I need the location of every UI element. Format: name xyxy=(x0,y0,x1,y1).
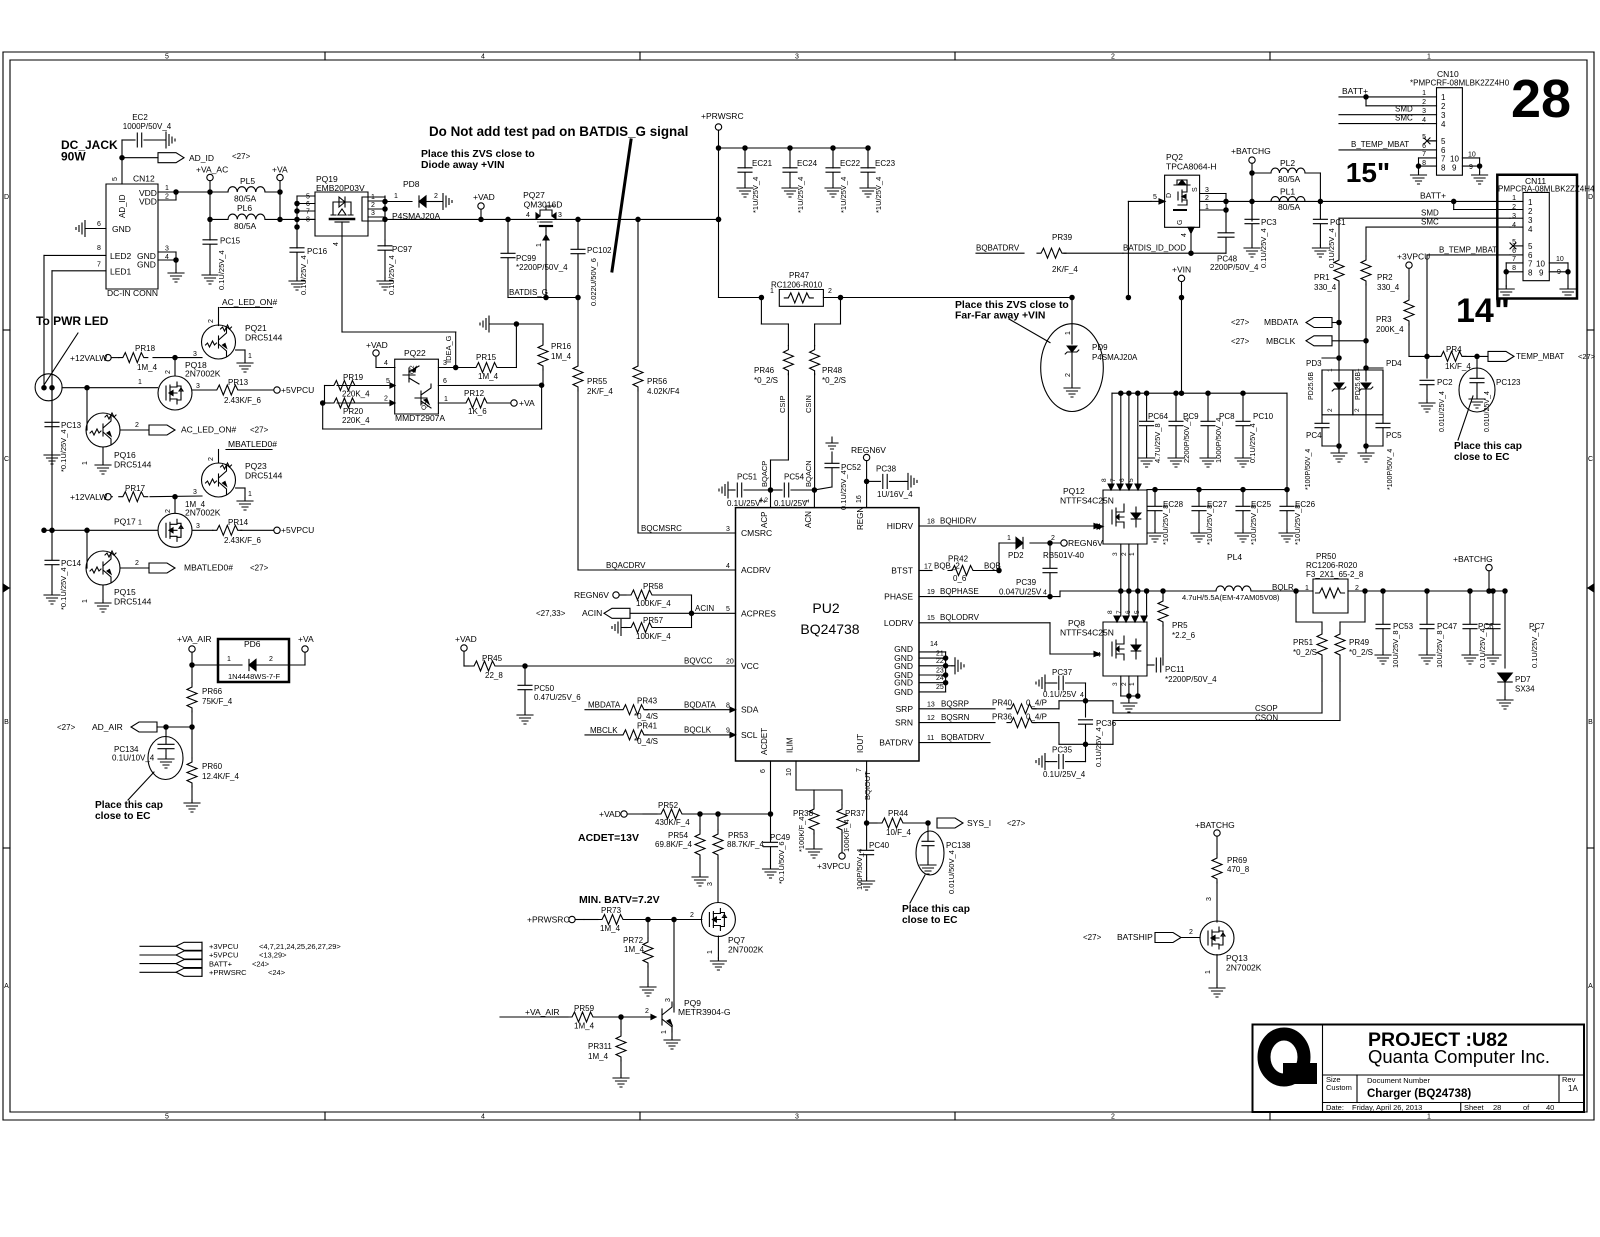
svg-text:C: C xyxy=(1588,456,1593,463)
svg-text:BQLR: BQLR xyxy=(1272,583,1294,592)
resistor PR46 xyxy=(754,346,793,490)
wire EC21 bus xyxy=(719,146,871,150)
capacitor PC11 xyxy=(1147,655,1217,684)
svg-text:MBATLED0#: MBATLED0# xyxy=(184,563,233,573)
capacitor PC47 xyxy=(1419,591,1458,668)
svg-text:1: 1 xyxy=(1441,93,1446,102)
note DC_JACK 90W xyxy=(61,138,118,164)
svg-text:PR37: PR37 xyxy=(845,809,866,818)
border arrow left xyxy=(3,584,9,592)
capacitor PC1 xyxy=(1312,201,1346,268)
svg-text:PC11: PC11 xyxy=(1165,665,1185,674)
svg-text:DRC5144: DRC5144 xyxy=(114,597,152,607)
transistor PQ12 xyxy=(1060,478,1147,544)
svg-text:PL1: PL1 xyxy=(1280,187,1295,197)
svg-text:3: 3 xyxy=(665,998,672,1002)
svg-text:VCC: VCC xyxy=(741,661,759,671)
svg-text:PD7: PD7 xyxy=(1515,675,1531,684)
svg-text:<24>: <24> xyxy=(268,968,286,977)
svg-text:PQ23: PQ23 xyxy=(245,461,267,471)
svg-text:1K/F_4: 1K/F_4 xyxy=(1445,362,1471,371)
svg-text:ACDRV: ACDRV xyxy=(741,565,771,575)
svg-text:To PWR LED: To PWR LED xyxy=(36,314,109,328)
svg-text:8: 8 xyxy=(726,703,730,710)
wire main to PR47 xyxy=(719,295,764,299)
transistor PQ13 xyxy=(1200,921,1262,974)
svg-text:REGN6V: REGN6V xyxy=(1068,538,1103,548)
node +12VALW 2 xyxy=(70,492,112,502)
svg-text:PU2: PU2 xyxy=(812,600,839,616)
svg-text:3: 3 xyxy=(1441,111,1446,120)
svg-text:PR66: PR66 xyxy=(202,687,223,696)
svg-text:5: 5 xyxy=(165,1114,169,1121)
svg-text:*0_2/S: *0_2/S xyxy=(822,376,846,385)
wire EC28 bus xyxy=(1147,487,1289,491)
svg-text:CN10: CN10 xyxy=(1437,69,1459,79)
wire MBDATA SDA xyxy=(585,701,621,710)
svg-text:5: 5 xyxy=(1528,242,1533,251)
resistor PR51 xyxy=(1293,591,1327,681)
svg-text:3: 3 xyxy=(371,210,375,217)
svg-text:0.1U/25V_4: 0.1U/25V_4 xyxy=(217,250,226,290)
svg-text:0.1U/25V_4: 0.1U/25V_4 xyxy=(299,255,308,295)
capacitor PC51 xyxy=(719,473,771,509)
svg-text:PC13: PC13 xyxy=(61,421,82,430)
svg-text:18: 18 xyxy=(927,519,935,526)
svg-text:SMC: SMC xyxy=(1395,114,1413,123)
svg-text:80/5A: 80/5A xyxy=(1278,202,1301,212)
svg-text:4: 4 xyxy=(1441,120,1446,129)
svg-text:BQDATA: BQDATA xyxy=(684,701,716,710)
svg-text:TPCA8064-H: TPCA8064-H xyxy=(1166,162,1217,172)
svg-text:EC22: EC22 xyxy=(840,159,861,168)
note Place cap EC left xyxy=(95,800,163,822)
svg-text:BATT+: BATT+ xyxy=(209,959,233,968)
note To PWR LED xyxy=(36,314,109,328)
svg-text:1: 1 xyxy=(394,193,398,200)
svg-text:<24>: <24> xyxy=(252,959,270,968)
sheet number 28 xyxy=(1511,69,1571,129)
net arrow ACIN xyxy=(536,604,736,618)
node +3VPCU right xyxy=(1397,252,1430,297)
svg-text:+5VPCU: +5VPCU xyxy=(281,525,314,535)
svg-text:8: 8 xyxy=(306,217,310,224)
capacitor PC52 xyxy=(804,437,862,510)
svg-text:*0.1U/25V_4: *0.1U/25V_4 xyxy=(59,429,68,472)
inductor PL4 xyxy=(1182,552,1298,602)
svg-text:PR44: PR44 xyxy=(888,809,909,818)
node +BATCHG mid xyxy=(1453,554,1493,593)
note callout line right xyxy=(1458,396,1473,440)
ground PR15 xyxy=(480,316,543,332)
PU2 GND pins xyxy=(919,641,948,692)
svg-text:3: 3 xyxy=(1528,216,1533,225)
note callout line mid xyxy=(910,875,925,903)
svg-text:PC40: PC40 xyxy=(869,841,890,850)
svg-text:PR3: PR3 xyxy=(1376,315,1392,324)
svg-text:80/5A: 80/5A xyxy=(234,194,257,204)
svg-text:PC138: PC138 xyxy=(946,841,971,850)
svg-text:2: 2 xyxy=(1111,54,1115,61)
svg-text:3: 3 xyxy=(795,54,799,61)
svg-text:close to EC: close to EC xyxy=(902,915,958,926)
svg-text:BQACP: BQACP xyxy=(760,461,769,487)
svg-text:PQ2: PQ2 xyxy=(1166,152,1183,162)
node +VAD gate xyxy=(366,340,395,368)
svg-text:MBDATA: MBDATA xyxy=(1264,317,1298,327)
svg-text:ACIN: ACIN xyxy=(582,608,602,618)
transistor PQ23 xyxy=(202,457,283,497)
svg-text:Quanta Computer Inc.: Quanta Computer Inc. xyxy=(1368,1046,1550,1067)
svg-text:1: 1 xyxy=(707,950,714,954)
transistor PQ17 xyxy=(114,497,192,548)
wire PQ9 base xyxy=(619,1008,656,1020)
svg-text:BQIOUT: BQIOUT xyxy=(863,771,872,800)
svg-text:1M_4: 1M_4 xyxy=(574,1022,595,1031)
resistor PR1 xyxy=(1314,218,1344,322)
svg-text:PD2: PD2 xyxy=(1008,551,1024,560)
svg-text:4: 4 xyxy=(1528,225,1533,234)
svg-text:2: 2 xyxy=(165,370,172,374)
svg-text:*2200P/50V_4: *2200P/50V_4 xyxy=(516,263,568,272)
svg-text:4: 4 xyxy=(1181,233,1188,237)
svg-text:MIN. BATV=7.2V: MIN. BATV=7.2V xyxy=(579,894,660,906)
svg-text:EC23: EC23 xyxy=(875,159,896,168)
svg-text:2.43K/F_6: 2.43K/F_6 xyxy=(224,396,261,405)
node +VA left xyxy=(272,165,288,222)
svg-text:<27>: <27> xyxy=(1007,819,1026,828)
svg-text:3: 3 xyxy=(726,526,730,533)
ground CN12 pin6 xyxy=(76,221,88,237)
wire +VA_AIR PR59 xyxy=(500,1007,560,1017)
svg-text:close to EC: close to EC xyxy=(95,811,151,822)
wire PR19/20 tie xyxy=(323,383,544,429)
svg-text:7: 7 xyxy=(856,768,863,772)
svg-text:2: 2 xyxy=(269,656,273,663)
wire B_TEMP vert xyxy=(1426,255,1428,378)
svg-text:+VA_AC: +VA_AC xyxy=(196,165,228,175)
svg-text:BQACDRV: BQACDRV xyxy=(606,561,646,570)
svg-text:*0_2/S: *0_2/S xyxy=(1293,648,1317,657)
svg-text:SMD: SMD xyxy=(1395,105,1413,114)
node +5VPCU 1 xyxy=(241,385,315,395)
svg-text:4: 4 xyxy=(384,360,388,367)
svg-text:1: 1 xyxy=(1422,90,1426,97)
capacitor PC37 xyxy=(1036,668,1086,701)
capacitor PC6 xyxy=(1462,591,1494,668)
pin 5 CN12 xyxy=(112,177,119,181)
note MIN. BATV=7.2V xyxy=(579,894,660,906)
resistor PR41 xyxy=(619,722,736,747)
PQ8 bottom pins xyxy=(1112,676,1140,698)
svg-text:ACPRES: ACPRES xyxy=(741,608,776,618)
wire BQCLK label xyxy=(684,726,730,735)
svg-text:2: 2 xyxy=(165,509,172,513)
capacitor PC15 xyxy=(202,219,241,290)
svg-text:<27>: <27> xyxy=(1083,933,1102,942)
wire PWR LED row2 xyxy=(42,528,158,532)
svg-text:1: 1 xyxy=(248,491,252,498)
node +VAD acdet xyxy=(599,809,643,819)
capacitor EC28 xyxy=(1147,487,1184,545)
svg-text:CSIP: CSIP xyxy=(778,395,787,413)
svg-text:0.1U/25V_4: 0.1U/25V_4 xyxy=(1043,770,1086,779)
svg-text:PR49: PR49 xyxy=(1349,638,1370,647)
svg-text:PC102: PC102 xyxy=(587,246,612,255)
node +PRWSRC top xyxy=(701,111,744,298)
svg-text:*0_4/S: *0_4/S xyxy=(634,712,658,721)
wire BQPHASE xyxy=(919,587,1199,597)
svg-text:BQSRP: BQSRP xyxy=(941,699,969,708)
svg-text:GND: GND xyxy=(137,260,156,270)
wire phase rail xyxy=(1119,589,1216,593)
wire B_TEMP_MBAT CN11 xyxy=(1427,245,1510,255)
net MBATLED0# top xyxy=(219,439,278,463)
svg-text:10: 10 xyxy=(1536,260,1545,269)
svg-text:330_4: 330_4 xyxy=(1314,283,1337,292)
diode PD2 xyxy=(999,535,1084,571)
svg-text:PC123: PC123 xyxy=(1496,378,1521,387)
resistor PR2 xyxy=(1361,227,1400,341)
resistor PR19 xyxy=(325,373,371,399)
svg-text:B_TEMP_MBAT: B_TEMP_MBAT xyxy=(1439,245,1497,254)
svg-text:<27>: <27> xyxy=(1231,337,1250,346)
svg-text:PR20: PR20 xyxy=(343,407,364,416)
svg-text:*1U/25V_4: *1U/25V_4 xyxy=(839,177,848,213)
resistor PR52 xyxy=(643,801,771,827)
capacitor PC64 xyxy=(1139,393,1169,467)
svg-text:+3VPCU: +3VPCU xyxy=(209,942,238,951)
svg-text:6: 6 xyxy=(306,201,310,208)
wire BATT+ to CN11 xyxy=(1320,191,1523,210)
note callout line far xyxy=(1009,319,1050,343)
transistor PQ9 xyxy=(662,998,730,1032)
resistor PR36 xyxy=(992,713,1088,747)
svg-text:0.1U/25V_4: 0.1U/25V_4 xyxy=(839,470,848,510)
svg-text:*1U/25V_4: *1U/25V_4 xyxy=(874,177,883,213)
ground PR311 xyxy=(613,1075,629,1087)
wire PQ2 feed xyxy=(1126,201,1151,299)
svg-text:PR13: PR13 xyxy=(228,378,249,387)
svg-text:9: 9 xyxy=(726,728,730,735)
svg-text:G: G xyxy=(1177,220,1184,225)
svg-text:1: 1 xyxy=(1205,970,1212,974)
svg-text:SYS_I: SYS_I xyxy=(967,818,991,828)
svg-text:D: D xyxy=(1588,194,1593,201)
svg-text:1000P/50V_4: 1000P/50V_4 xyxy=(123,122,172,131)
capacitor PC5 xyxy=(1366,418,1402,490)
wire ILIM pin xyxy=(786,761,814,790)
svg-text:PR56: PR56 xyxy=(647,377,668,386)
node +VA air right xyxy=(298,634,314,665)
svg-text:22: 22 xyxy=(936,658,944,665)
svg-text:4: 4 xyxy=(1080,692,1084,699)
svg-text:RB501V-40: RB501V-40 xyxy=(1043,551,1084,560)
svg-text:PC64: PC64 xyxy=(1148,412,1169,421)
svg-text:AC_LED_ON#: AC_LED_ON# xyxy=(181,425,237,435)
title block frame xyxy=(1253,1025,1585,1113)
PQ22 pin6 row xyxy=(438,378,541,386)
svg-text:1: 1 xyxy=(770,288,774,295)
svg-text:CN12: CN12 xyxy=(133,174,155,184)
CN10 pin stubs xyxy=(1419,90,1437,167)
svg-text:4: 4 xyxy=(526,212,530,219)
svg-text:7: 7 xyxy=(1512,256,1516,263)
svg-text:<27>: <27> xyxy=(57,723,76,732)
svg-text:7: 7 xyxy=(1528,260,1533,269)
svg-text:*0_4/S: *0_4/S xyxy=(634,737,658,746)
diode PD3 xyxy=(1306,358,1353,448)
svg-text:+VA: +VA xyxy=(272,165,288,175)
border arrow right xyxy=(1588,584,1594,592)
svg-text:MBDATA: MBDATA xyxy=(588,701,621,710)
capacitor PC7 xyxy=(1485,589,1545,668)
svg-text:PR59: PR59 xyxy=(574,1004,595,1013)
resistor PR15 xyxy=(456,324,517,381)
svg-text:ACN: ACN xyxy=(804,511,813,528)
resistor PR73 xyxy=(584,906,702,933)
svg-text:1: 1 xyxy=(1427,54,1431,61)
svg-text:<27>: <27> xyxy=(1578,352,1596,361)
svg-text:PQ17: PQ17 xyxy=(114,517,136,527)
wire IDEA_G xyxy=(438,335,458,369)
svg-text:PR51: PR51 xyxy=(1293,638,1314,647)
svg-text:2: 2 xyxy=(135,560,139,567)
ground CN10 pins78 xyxy=(1411,158,1427,184)
svg-text:REGN6V: REGN6V xyxy=(851,445,886,455)
svg-text:QM3016D: QM3016D xyxy=(524,200,563,210)
svg-text:PQ21: PQ21 xyxy=(245,323,267,333)
svg-text:DRC5144: DRC5144 xyxy=(114,460,152,470)
svg-text:Rev: Rev xyxy=(1562,1075,1576,1084)
PU2 top pin REGN xyxy=(856,481,867,507)
capacitor EC22 xyxy=(825,148,861,213)
svg-text:PC47: PC47 xyxy=(1437,622,1458,631)
wire BATDIS_ID_DOD xyxy=(1123,244,1191,254)
svg-text:PC2: PC2 xyxy=(1437,378,1453,387)
CN12 pin3/4 GND wires xyxy=(158,246,178,263)
svg-text:2200P/50V_4: 2200P/50V_4 xyxy=(1210,263,1259,272)
svg-text:2: 2 xyxy=(645,1008,649,1015)
svg-text:2: 2 xyxy=(208,319,215,323)
note Place ZVS diode xyxy=(421,149,535,171)
svg-text:8: 8 xyxy=(1512,265,1516,272)
no-connect CN10 pin5 xyxy=(1424,138,1437,144)
wire MBCLK SCL xyxy=(585,726,618,735)
svg-text:11: 11 xyxy=(927,735,934,742)
svg-text:PR42: PR42 xyxy=(948,555,969,564)
svg-text:PC1: PC1 xyxy=(1330,218,1346,227)
svg-text:+VAD: +VAD xyxy=(599,809,621,819)
wire BATDIS vertical PR55 xyxy=(577,298,579,363)
svg-text:DRC5144: DRC5144 xyxy=(245,471,283,481)
svg-text:1: 1 xyxy=(1129,552,1136,556)
svg-text:PD4: PD4 xyxy=(1386,359,1402,368)
svg-text:9: 9 xyxy=(1452,164,1457,173)
wire PQ17 to PR14 xyxy=(193,523,213,530)
svg-text:+VA: +VA xyxy=(298,634,314,644)
svg-text:2: 2 xyxy=(208,457,215,461)
capacitor EC26 xyxy=(1279,490,1316,545)
svg-text:P4SMAJ20A: P4SMAJ20A xyxy=(392,211,441,221)
capacitor PC50 xyxy=(517,666,581,724)
capacitor PC8 xyxy=(1200,391,1235,467)
resistor PR66 xyxy=(187,665,233,729)
svg-text:330_4: 330_4 xyxy=(1377,283,1400,292)
svg-text:200K_4: 200K_4 xyxy=(1376,325,1404,334)
svg-text:0.01U/25V_4: 0.01U/25V_4 xyxy=(1439,391,1446,432)
svg-text:RC1206-R020: RC1206-R020 xyxy=(1306,561,1358,570)
svg-text:+PRWSRC: +PRWSRC xyxy=(701,111,744,121)
svg-text:1M_4: 1M_4 xyxy=(478,372,499,381)
net arrow SYS_I xyxy=(937,818,1026,828)
wire VDD to +VA_AC xyxy=(176,191,228,193)
wire BQSRN xyxy=(919,713,995,723)
svg-text:PD25.6B: PD25.6B xyxy=(1308,372,1315,400)
ground PD7 xyxy=(1497,697,1513,709)
svg-text:2: 2 xyxy=(1065,373,1072,377)
svg-text:PR5: PR5 xyxy=(1172,621,1188,630)
svg-text:BATDIS_ID_DOD: BATDIS_ID_DOD xyxy=(1123,244,1186,253)
svg-text:2N7002K: 2N7002K xyxy=(185,369,221,379)
svg-text:1: 1 xyxy=(82,461,89,465)
transistor PQ2 xyxy=(1151,152,1217,227)
capacitor PC39 xyxy=(999,543,1057,599)
svg-text:0_4/P: 0_4/P xyxy=(1026,699,1047,708)
wire BTST xyxy=(919,562,960,571)
title Charger (BQ24738) xyxy=(1367,1088,1471,1100)
title Sheet xyxy=(1464,1103,1554,1112)
svg-text:7: 7 xyxy=(97,262,101,269)
svg-text:IDEA_G: IDEA_G xyxy=(444,335,453,363)
svg-text:BQLODRV: BQLODRV xyxy=(940,613,980,622)
svg-text:1: 1 xyxy=(1528,198,1533,207)
svg-text:Custom: Custom xyxy=(1326,1083,1352,1092)
svg-text:SMC: SMC xyxy=(1421,218,1439,227)
ground PR38 xyxy=(806,846,822,858)
svg-text:10U/25V_8: 10U/25V_8 xyxy=(1391,630,1400,668)
svg-text:*1U/25V_4: *1U/25V_4 xyxy=(796,177,805,213)
svg-text:3: 3 xyxy=(1112,552,1119,556)
big label 15 inch xyxy=(1346,157,1390,188)
svg-text:5: 5 xyxy=(306,194,310,201)
svg-text:BQ24738: BQ24738 xyxy=(800,621,859,637)
svg-text:220K_4: 220K_4 xyxy=(342,416,370,425)
svg-text:69.8K/F_4: 69.8K/F_4 xyxy=(655,840,692,849)
svg-text:1: 1 xyxy=(1427,1114,1431,1121)
capacitor PC2 xyxy=(1419,378,1453,432)
svg-text:REGN6V: REGN6V xyxy=(574,590,609,600)
svg-text:PC51: PC51 xyxy=(737,473,758,482)
svg-text:13: 13 xyxy=(927,701,935,708)
PQ22 pin1 PR12 xyxy=(438,389,510,416)
note To PWR LED circle xyxy=(35,374,62,401)
capacitor PC10 xyxy=(1235,391,1274,467)
svg-text:PHASE: PHASE xyxy=(884,592,913,602)
border zone ticks left xyxy=(3,330,10,848)
net flags bottom xyxy=(140,942,341,977)
svg-text:2: 2 xyxy=(1512,204,1516,211)
svg-text:D: D xyxy=(4,194,9,201)
svg-text:F3_2X1_65-2_8: F3_2X1_65-2_8 xyxy=(1306,570,1364,579)
resistor PR49 xyxy=(1335,591,1373,681)
capacitor PC36 xyxy=(1079,701,1117,767)
wire AD_ID stub xyxy=(122,157,158,159)
wire BATDIS_G xyxy=(508,288,580,300)
svg-text:80/5A: 80/5A xyxy=(234,221,257,231)
svg-text:Q2: Q2 xyxy=(409,365,416,374)
svg-text:SX34: SX34 xyxy=(1515,685,1535,694)
